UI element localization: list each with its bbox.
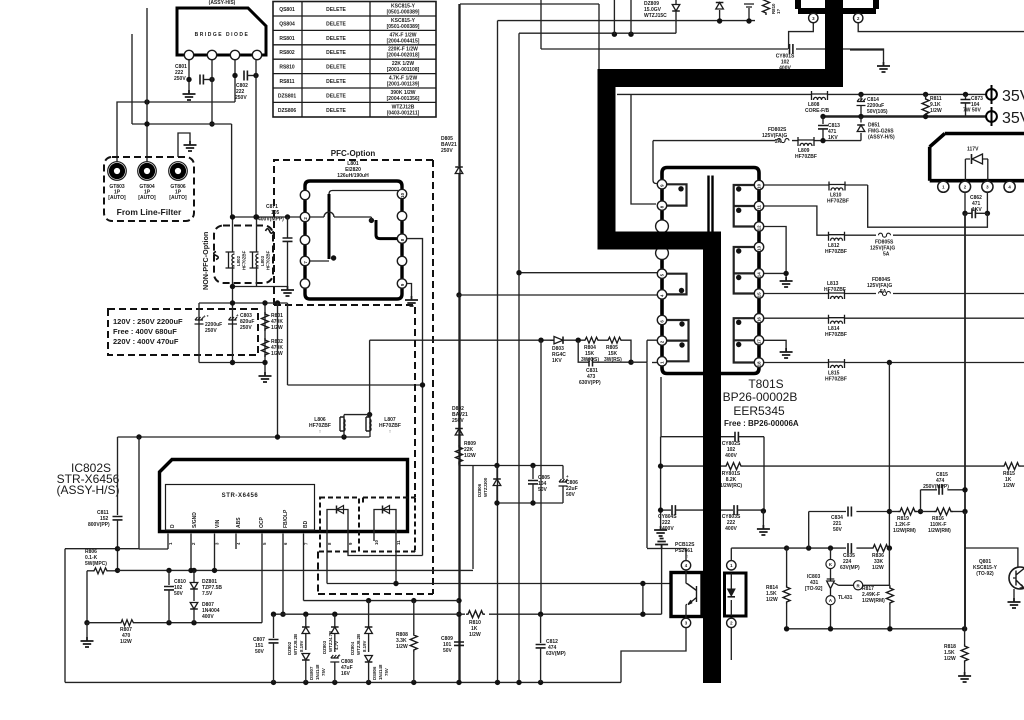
svg-text:1/2W(RM): 1/2W(RM) (928, 528, 951, 534)
capacitor C809 (441, 636, 464, 654)
svg-text:DELETE: DELETE (326, 21, 346, 27)
diode D851 (857, 114, 895, 141)
wire feed y217 into PFC pin2 (232, 216, 300, 218)
wire bridge pin3 down (234, 60, 236, 102)
IC pin 7 stub (303, 534, 305, 601)
wire drive bus y437 (118, 436, 370, 438)
connector GT803 (108, 162, 127, 201)
svg-text:PFC-Option: PFC-Option (331, 149, 376, 158)
svg-text:1/2W: 1/2W (464, 453, 476, 459)
svg-text:18: 18 (757, 361, 762, 366)
primary pin 1 (657, 357, 666, 366)
svg-text:STR-X6456: STR-X6456 (222, 493, 259, 499)
svg-text:WTZJ300: WTZJ300 (483, 477, 488, 497)
L801 pin 9 (397, 279, 406, 288)
junction C802 right (253, 73, 258, 78)
svg-text:35V: 35V (1002, 88, 1024, 105)
inductor L810 (827, 182, 849, 205)
svg-text:[AUTO]: [AUTO] (169, 195, 187, 201)
svg-text:1/2W(RM): 1/2W(RM) (862, 598, 885, 604)
capacitor CY802S (661, 432, 764, 459)
PFC-Option dashed box (274, 149, 433, 594)
svg-text:12: 12 (757, 225, 762, 230)
svg-text:DZ802: DZ802 (287, 641, 292, 655)
svg-text:DS806: DS806 (372, 666, 377, 680)
secondary loop pins 10-11-12 (734, 185, 756, 227)
svg-text:1KV: 1KV (828, 135, 838, 141)
wire zener bias bottom rail (497, 502, 563, 504)
option cut mark a (266, 229, 274, 234)
inductor L809 (795, 137, 817, 160)
svg-text:[2001-001139]: [2001-001139] (387, 82, 420, 88)
117V pin 2 (959, 181, 970, 192)
svg-text:WTZJ4.7B: WTZJ4.7B (328, 631, 333, 652)
wire left rail x65 (65, 549, 118, 683)
svg-text:EER5345: EER5345 (733, 404, 785, 418)
wire pin17 to ground (764, 340, 786, 348)
capacitor C805 (528, 466, 550, 504)
wire feed to primary pin 9 (653, 141, 658, 184)
junction pin4 at y217 (253, 214, 258, 219)
L801 pin 5 (bottom-left) (300, 279, 309, 288)
ground at C801 (188, 80, 190, 91)
capacitor C862 (962, 191, 990, 218)
B+ node rails around main caps (199, 303, 288, 372)
IC pin 11 stub (395, 512, 397, 584)
svg-text:16: 16 (757, 317, 762, 322)
wire y49 rail with CY801S (541, 0, 884, 62)
svg-text:DZS801: DZS801 (278, 93, 297, 99)
wire opto pin3 down-left to bus (621, 628, 686, 683)
svg-text:[TO-92]: [TO-92] (805, 586, 823, 592)
svg-text:75V: 75V (321, 668, 326, 676)
wire pin3 to CY801S node (789, 23, 814, 49)
wire 117V pin2 feedback line long (964, 213, 966, 629)
wire pin4 node down to C812 rail (661, 549, 663, 615)
wire B+ rail down to drive bus (277, 303, 279, 437)
svg-text:10: 10 (757, 183, 762, 188)
capacitor C814 (857, 92, 888, 117)
wire y272.7 to xfmr pin5 (519, 272, 657, 274)
junction C801 left (186, 77, 191, 82)
wire stubs with diode glyphs at y21 (720, 8, 749, 21)
svg-text:5A: 5A (880, 289, 887, 295)
svg-text:400V(MPP): 400V(MPP) (258, 217, 284, 223)
capacitor C812 (536, 614, 566, 682)
svg-text:7W 50V: 7W 50V (963, 108, 981, 114)
T801S part number text (723, 377, 799, 428)
117V regulator block (930, 134, 1024, 193)
svg-text:5A: 5A (775, 139, 782, 145)
wire 117V pin3 to L810 net (868, 185, 988, 227)
junction L803 top (254, 214, 259, 219)
diode inside 117V block (965, 158, 988, 160)
resistor R809 (456, 441, 477, 466)
svg-text:1/2W: 1/2W (930, 108, 942, 114)
diode DS806 (365, 656, 389, 683)
primary loop pins 5-4 (665, 274, 687, 295)
diode DS807 (302, 654, 326, 683)
L801 pin (right) (397, 256, 406, 265)
wire top rail y33.2 (519, 33, 676, 682)
svg-text:[0501-000389]: [0501-000389] (387, 24, 420, 30)
connector GT804 (138, 162, 157, 201)
svg-text:120V : 250V 2200uF: 120V : 250V 2200uF (113, 317, 183, 326)
top connector housing (798, 0, 876, 11)
svg-text:TL431: TL431 (838, 595, 853, 601)
resistor R819 (889, 508, 920, 534)
wire D803 to R804 (563, 339, 584, 341)
svg-text:50V: 50V (255, 649, 265, 655)
IC803 TL431 (805, 548, 890, 629)
primary pin 2 (657, 336, 666, 345)
wire top rail y4 (460, 4, 599, 682)
svg-text:D: D (170, 524, 176, 528)
wire x139 riser to IC pin1 (139, 437, 168, 549)
wire sense line x889 down (888, 363, 890, 549)
wire L801 pin7 to winding (310, 260, 329, 262)
svg-text:HF70ZBF: HF70ZBF (825, 377, 847, 383)
secondary wire pin16 L814 rail (764, 317, 1024, 319)
diode glyph top (716, 3, 724, 10)
svg-text:HF70ZBF: HF70ZBF (795, 154, 817, 160)
wire risers x614 x631 (614, 0, 631, 34)
L801 pin 1 (top-left) (300, 190, 309, 199)
svg-text:1/2W: 1/2W (944, 656, 956, 662)
svg-text:8.19V: 8.19V (362, 640, 367, 652)
wire B+ feed y385 (288, 303, 423, 385)
snubber wire y140.6 (653, 140, 861, 142)
optocoupler transistor half (671, 570, 702, 618)
ground at CY riser (654, 526, 667, 536)
wire bottom bus y682.4 (65, 681, 621, 683)
fuse FD802S (762, 127, 789, 145)
junction pin18 rail to sense drop (887, 360, 892, 365)
wire x631 riser to pin 8 (631, 94, 656, 204)
output terminal 35V upper (986, 85, 1024, 105)
wire GT804 riser (146, 8, 148, 162)
L801 pin 10 (397, 189, 406, 198)
wire left riser x132 (131, 34, 133, 124)
svg-text:250V: 250V (235, 95, 247, 101)
NON-PFC-Option dashed box (201, 226, 273, 291)
svg-text:CORE-F/B: CORE-F/B (805, 108, 830, 114)
resistor R818 (944, 629, 968, 672)
svg-text:5W(MPC): 5W(MPC) (85, 561, 107, 567)
resistor R805 (604, 337, 622, 363)
diode D803 (550, 337, 566, 365)
svg-text:1/2W: 1/2W (1003, 483, 1015, 489)
ferrite bead L807 (366, 415, 401, 437)
capacitor C808 (330, 653, 353, 682)
zener DZ806 (477, 466, 501, 504)
svg-text:BP26-00002B: BP26-00002B (723, 390, 798, 404)
secondary wire pin10 rail (764, 184, 868, 186)
svg-text:1/2W: 1/2W (396, 644, 408, 650)
ground at L801 pin9 (405, 296, 418, 306)
svg-text:10: 10 (374, 540, 379, 545)
resistor R815 (1002, 463, 1021, 489)
wire snubber y340 (370, 339, 554, 341)
svg-text:[0403-001211]: [0403-001211] (387, 110, 420, 116)
svg-text:126uH/190uH: 126uH/190uH (337, 173, 369, 179)
L801 internal winding junction dots (369, 218, 374, 223)
117V pin 3 (982, 181, 993, 192)
bridge pin 3 (230, 50, 239, 59)
wire OCP line y600.6 (304, 600, 460, 602)
svg-text:(TO-92): (TO-92) (976, 571, 994, 577)
svg-text:1/2W: 1/2W (766, 597, 778, 603)
svg-text:50V: 50V (833, 527, 843, 533)
primary loop pins 9-8 (665, 184, 687, 205)
IC pin 9 stub (348, 512, 423, 556)
wire C801 to bridge pin2 (204, 79, 212, 81)
svg-text:+: + (566, 474, 569, 479)
svg-text:L802: L802 (236, 255, 241, 266)
svg-text:NON-PFC-Option: NON-PFC-Option (201, 232, 210, 290)
svg-text:[2004-001356]: [2004-001356] (387, 96, 420, 102)
wire CY right riser x764 (763, 437, 765, 511)
primary loop pins 6-2-1 (665, 320, 689, 361)
fuse FD805S (870, 233, 895, 257)
wire opto pin2 stub (730, 628, 732, 660)
IC body diode pins 10-11 (374, 506, 396, 514)
svg-text:HF70ZBF: HF70ZBF (825, 249, 847, 255)
svg-text:↑: ↑ (319, 429, 322, 435)
primary pin 5 (657, 269, 666, 278)
capacitor C801 (174, 64, 203, 85)
svg-text:250V: 250V (240, 325, 252, 331)
svg-text:WTZJ15C: WTZJ15C (644, 13, 667, 19)
svg-text:75V: 75V (384, 668, 389, 676)
resistor RS-top rotated (763, 0, 782, 15)
svg-text:63V(MP): 63V(MP) (840, 565, 860, 571)
svg-text:800V(PP): 800V(PP) (88, 522, 110, 528)
delete-parts table (273, 2, 436, 118)
zener DZ804 (350, 601, 372, 655)
resistor R814 (766, 548, 790, 629)
svg-text:[AUTO]: [AUTO] (138, 195, 156, 201)
svg-text:8.19V: 8.19V (299, 640, 304, 652)
svg-text:DELETE: DELETE (326, 7, 346, 13)
wire x647 primary return joins pin4 node (647, 548, 662, 550)
transformer T801S (656, 168, 764, 374)
capacitor C813 (818, 114, 840, 144)
svg-text:16V: 16V (341, 671, 351, 677)
diode D805 (441, 136, 463, 295)
wire GT806 up to ground (178, 133, 190, 157)
wire B- return y622.7 (87, 622, 262, 624)
optocoupler pin 3 (681, 618, 690, 627)
wire PFC pin9 to ground (407, 284, 412, 297)
capacitor C835 (840, 543, 860, 571)
junction C802 left (232, 73, 237, 78)
svg-text:WTZJ8.2B: WTZJ8.2B (356, 634, 361, 655)
option cut mark b (214, 252, 219, 260)
svg-text:1KV: 1KV (972, 207, 982, 213)
wire bridge pin2 down to y124 (211, 60, 213, 124)
ground at GT806 (184, 141, 197, 151)
svg-text:DZS806: DZS806 (278, 108, 297, 114)
secondary loop pins 13-14-15 (734, 247, 756, 294)
secondary pin 12 (754, 222, 763, 231)
svg-text:VIN: VIN (215, 519, 221, 528)
resistor R836 (871, 545, 890, 571)
capacitor C834 (809, 507, 890, 549)
svg-text:14: 14 (757, 272, 762, 277)
svg-text:DELETE: DELETE (326, 50, 346, 56)
inductor L802 (226, 250, 247, 270)
svg-text:[AUTO]: [AUTO] (108, 195, 126, 201)
connector pin 2 (854, 13, 863, 22)
L801 pin (mid-left) (300, 235, 309, 244)
primary pin 4 (657, 290, 666, 299)
svg-text:BRIDGE DIODE: BRIDGE DIODE (195, 32, 250, 38)
capacitor C871 (258, 204, 293, 286)
dashed box around body diode 2 (363, 498, 415, 552)
capacitor C831 (578, 340, 634, 386)
ground at R806 leg (86, 623, 88, 637)
svg-text:DS807: DS807 (309, 666, 314, 680)
svg-text:250V: 250V (452, 418, 464, 424)
svg-text:35V: 35V (1002, 110, 1024, 127)
resistor R810 (466, 611, 485, 638)
primary pin 6 (657, 315, 666, 324)
secondary pin 14 (754, 269, 763, 278)
35V rail lower (823, 115, 986, 118)
svg-text:11: 11 (396, 540, 401, 545)
svg-text:50V: 50V (538, 487, 548, 493)
secondary wire pin11 to L812 FD805S rail (764, 206, 1024, 235)
wire x459 vin feed: already drawn long vertical (456, 598, 461, 603)
svg-text:250V: 250V (441, 148, 453, 154)
capacitor CY804S (658, 505, 703, 532)
IC pin 2 stub (190, 534, 192, 571)
wire pin2 to right edge (858, 23, 1024, 32)
svg-text:[2001-001108]: [2001-001108] (387, 67, 420, 73)
svg-text:From Line-Filter: From Line-Filter (117, 207, 182, 217)
junction GT804 riser on y124 (144, 121, 149, 126)
svg-text:4.7V: 4.7V (334, 641, 339, 650)
wire opto pin1 to fb node rail y548.1 (731, 548, 786, 561)
ground at pin17 (780, 348, 793, 358)
svg-text:400V: 400V (725, 526, 737, 532)
wire x459 long vertical (458, 4, 460, 166)
svg-text:+ *: + * (203, 314, 209, 319)
bridge pin 1 (184, 50, 193, 59)
svg-text:RS811: RS811 (279, 79, 294, 85)
capacitor C815 (921, 472, 968, 512)
IC pin 10 stub (373, 512, 375, 541)
capacitor C807 (253, 614, 279, 682)
IC802S STR-X6456 block (160, 460, 408, 532)
wire top rail y20.6 (498, 21, 756, 682)
117V pin 4 (1004, 181, 1015, 192)
resistor R802 (262, 338, 284, 357)
svg-text:17: 17 (757, 339, 762, 344)
secondary wire pin15 FD804S rail (764, 293, 1024, 295)
junction C801 right (209, 77, 214, 82)
svg-text:Free : 400V 680uF: Free : 400V 680uF (113, 327, 177, 336)
TL431 K terminal (826, 559, 835, 568)
svg-text:[0501-000389]: [0501-000389] (387, 10, 420, 16)
svg-text:(ASSY-H/S): (ASSY-H/S) (868, 135, 895, 141)
fuse FD804S (867, 277, 892, 296)
svg-text:RS801: RS801 (279, 36, 295, 42)
wire PFC pin8 right and down (to IC pin9 net) (407, 239, 423, 556)
inductor L801 body (300, 181, 406, 299)
wire y548.7 to IC pin1 riser (118, 548, 140, 550)
output terminal 35V lower (986, 107, 1024, 127)
primary plain pin b (656, 247, 669, 260)
IC body diode pins 8-9 (327, 506, 348, 514)
zener DZ809 (644, 0, 680, 33)
wire pins 12 and 14 to ground (764, 227, 786, 278)
svg-text:[2004-002018]: [2004-002018] (387, 53, 420, 59)
ground at CY801S right (877, 62, 890, 72)
wire CY left riser x660.6 (660, 437, 662, 526)
wire fb rail y548.1 segments (787, 547, 890, 549)
isolation barrier thick bar (607, 0, 835, 683)
resistor R801 (262, 312, 284, 331)
svg-text:S/GND: S/GND (192, 512, 198, 528)
resistor R808 (396, 601, 417, 683)
svg-text:HF70ZBF: HF70ZBF (824, 287, 846, 293)
wire bias node y465.5 (459, 466, 563, 570)
117V pin 1 (938, 181, 949, 192)
svg-text:250V(MPP): 250V(MPP) (923, 484, 949, 490)
bridge pin 2 (207, 50, 216, 59)
inductor L812 (825, 232, 847, 255)
resistor R811 (922, 92, 942, 120)
L801 pin (mid-right) (397, 211, 406, 220)
TL431 R terminal (854, 581, 863, 590)
zener DZ801 (190, 570, 222, 601)
svg-text:(ASSY-H/S): (ASSY-H/S) (57, 483, 120, 497)
optocoupler pin 4 (681, 561, 690, 570)
inductor L808 (805, 91, 830, 114)
secondary pin 13 (754, 242, 763, 251)
svg-text:1/2W(RC): 1/2W(RC) (720, 483, 743, 489)
IC pin 8 stub (326, 512, 328, 584)
svg-text:[2004-004415]: [2004-004415] (387, 38, 420, 44)
capacitor CY803S (721, 505, 763, 532)
inductor L813 (824, 281, 846, 299)
resistor R804 (581, 337, 599, 363)
wire y466 rail to R815 (764, 465, 1024, 467)
ground at pins 12-14 (780, 277, 793, 287)
wire x965 feedback into node (964, 512, 966, 629)
svg-text:DELETE: DELETE (326, 36, 346, 42)
svg-text:400V: 400V (725, 453, 737, 459)
inductor L803 (250, 250, 271, 270)
wire L801 pin2 to internal winding (310, 217, 371, 220)
wire B+ drop to beads (369, 340, 371, 414)
svg-text:1/2W: 1/2W (120, 639, 132, 645)
resistor R817 (862, 548, 893, 629)
svg-text:DELETE: DELETE (326, 108, 346, 114)
svg-text:+: + (338, 653, 341, 658)
junction x519 y272.7 (516, 270, 521, 275)
svg-text:HF70ZBF: HF70ZBF (242, 250, 247, 270)
svg-text:1N4148: 1N4148 (378, 664, 383, 680)
TL431 A terminal (826, 596, 835, 605)
primary pin 9 (657, 180, 666, 189)
wire y295 to xfmr pin7 (459, 294, 657, 296)
svg-text:DELETE: DELETE (326, 79, 346, 85)
ground at R818 (958, 672, 971, 682)
svg-text:+: + (236, 313, 239, 318)
